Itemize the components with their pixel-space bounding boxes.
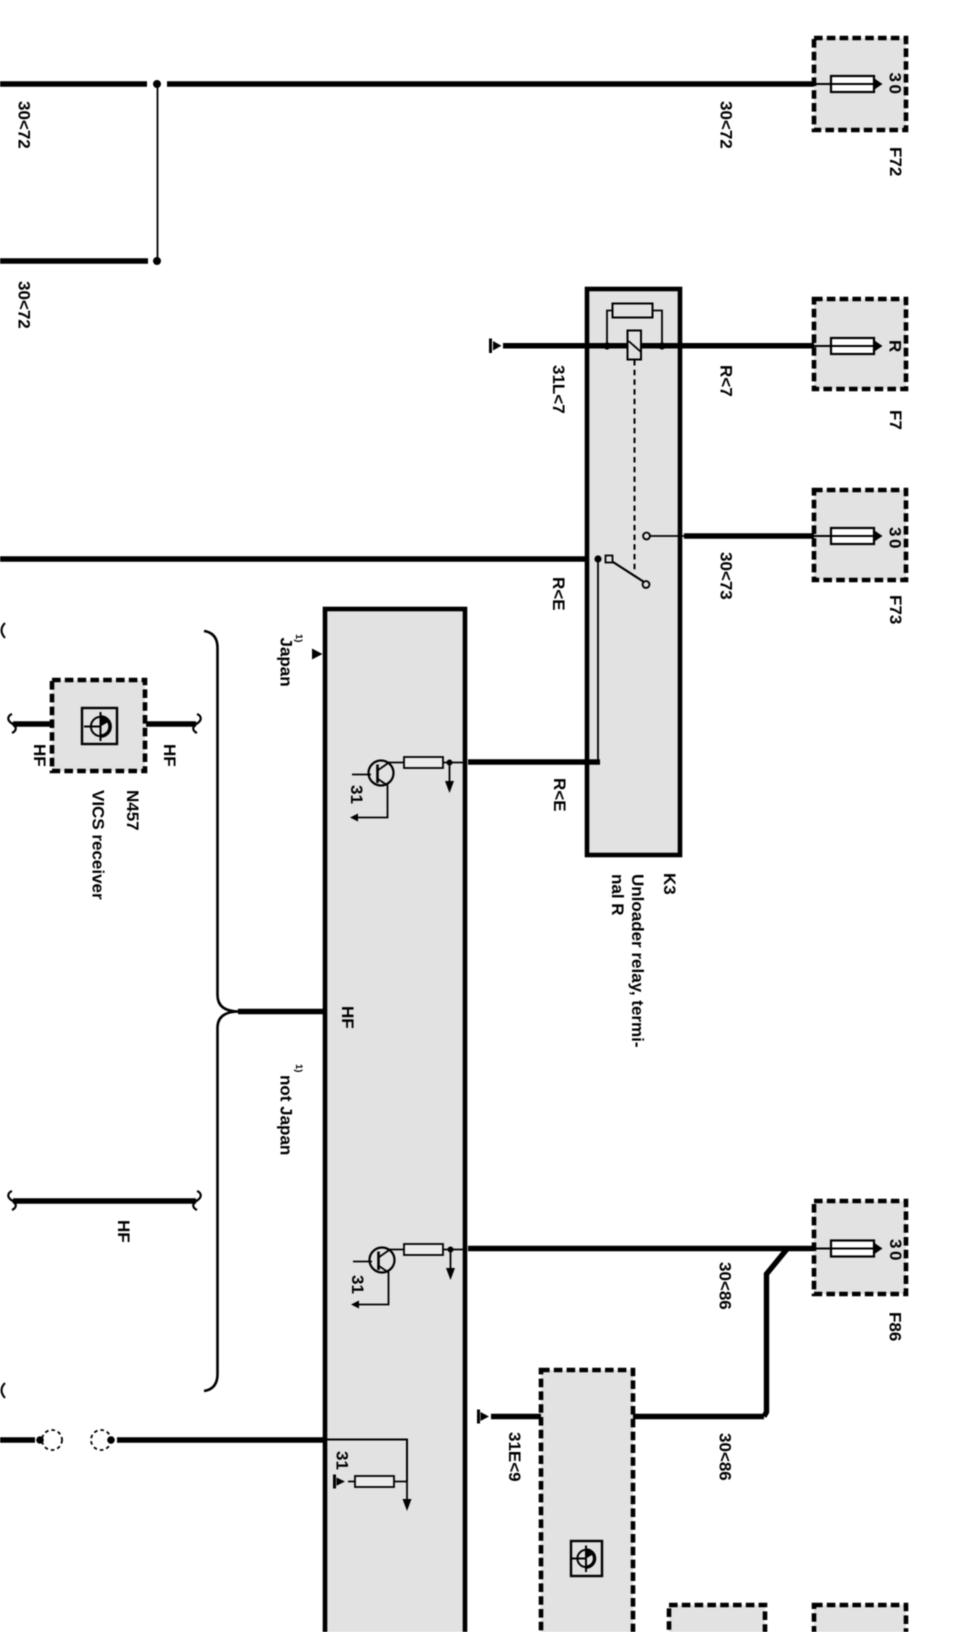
break squiggle stub right [193,1191,201,1210]
wire connector row to nav box [117,1437,327,1442]
label HF left [30,744,49,767]
svg-text:R<E: R<E [550,778,569,812]
label 31 internal [333,1451,352,1470]
arrow Japan variant input [312,649,323,660]
label 30<72 lower stub [15,281,34,329]
label F7 [886,410,905,430]
svg-text:F73: F73 [886,595,905,624]
pin label 30 on F72 [886,73,905,97]
fuse F7 body [814,338,883,354]
label F73 [886,595,905,624]
wire Q2 resistor to edge [443,1249,466,1251]
transistor Q1 base bar [376,765,379,784]
arrow Q2 down continuation [446,1250,455,1281]
label 31 Q1 [347,785,366,804]
wire link between junctions [157,84,159,261]
relay parallel resistor body [613,304,653,318]
antenna symbol beacon unit [571,1541,602,1576]
svg-text:30<86: 30<86 [716,1433,735,1481]
transistor Q2 emitter with ground arrow 31 [351,1266,389,1309]
svg-text:30<72: 30<72 [15,281,34,329]
label 30<72 upper stub [15,101,34,149]
svg-text:R<E: R<E [549,577,568,611]
wire 31E<9 to beacon box [491,1414,541,1419]
transistor Q1 emitter with ground arrow 31 [350,779,388,822]
wire riser to F86 wire [764,1249,787,1417]
svg-text:not Japan: not Japan [277,1075,296,1155]
wire 30<73 relay to F73 [684,533,814,538]
node junction second [153,257,161,265]
svg-text:HF: HF [30,744,49,767]
svg-text:R: R [886,340,905,352]
label F86 [886,1312,905,1341]
svg-text:Unloader relay, termi-: Unloader relay, termi- [628,874,647,1048]
wire R<E nav to relay [468,759,600,764]
fuse F72 lead [814,83,874,85]
label 30<72 near F72 [717,101,736,149]
node dot R<E entry [594,555,601,562]
arrow down continuation internal [403,1482,412,1512]
relay coil parallel resistor leads [607,311,662,345]
label HF stub [114,1220,133,1243]
wire 31L<7 / R<7 through relay to F7 [503,343,814,348]
svg-text:31: 31 [333,1451,352,1470]
resistor internal ground network [348,1476,407,1487]
fuse F72 body [831,76,874,92]
svg-text:F7: F7 [886,410,905,430]
svg-text:HF: HF [338,1006,357,1029]
relay contact lead to box edge [651,535,685,537]
component box bottom middle cut [669,1605,765,1632]
transistor Q2 base bar [377,1252,380,1271]
relay K3 box [587,289,680,855]
svg-text:30<72: 30<72 [717,101,736,149]
label HF at nav box [338,1006,357,1029]
break squiggle right [193,714,201,733]
transistor Q1 circle [369,761,394,786]
label 30<86 lower [716,1433,735,1481]
svg-text:F86: F86 [886,1312,905,1341]
navigation unit box [325,609,465,1632]
resistor Q1 output [404,757,443,768]
arrow Q1 down continuation [445,763,454,794]
svg-text:31L<7: 31L<7 [549,365,568,414]
label HF right [160,744,179,767]
wire HF stub not-Japan [13,1198,196,1203]
label nal R [608,874,627,916]
VICS beacon antenna unit box [541,1370,633,1632]
fuse box F7 [814,299,906,389]
pin label R on F7 [886,340,905,352]
wire HF right of N457 [146,721,196,726]
label R<E left [549,577,568,611]
node junction top-left [153,80,161,88]
transistor Q2 circle [370,1248,395,1273]
fuse F73 body [814,528,883,544]
svg-text:K3: K3 [660,873,679,895]
pin label 30 on F86 [886,1239,905,1263]
wire 30<72 lower stub [0,258,148,263]
wire internal R<E riser [597,559,599,761]
label K3 [660,873,679,895]
label 30<73 [717,552,736,600]
VICS receiver box N457 [52,680,145,771]
relay common contact square [606,556,613,563]
svg-text:R<7: R<7 [717,365,736,397]
svg-text:HF: HF [160,744,179,767]
node dot right coil tap [658,342,665,349]
label 31L<7 [549,365,568,414]
ground symbol wire 31L<7 [489,339,502,354]
transistor Q2 base lead [353,1261,372,1263]
page cut mark upper [2,623,6,638]
wire HF left of N457 [13,721,51,726]
fuse box F72 [814,38,906,130]
antenna symbol N457 [82,708,117,744]
wire Q1 resistor to edge [443,762,466,764]
node dot left coil tap [603,342,610,349]
wire connector row left segment [0,1437,35,1442]
svg-text:N457: N457 [123,790,142,831]
label F72 [886,147,905,176]
svg-text:30: 30 [886,527,905,551]
svg-text:30: 30 [886,73,905,97]
label Unloader relay termi- [628,874,647,1048]
svg-text:Japan: Japan [277,638,296,687]
wire 30<72 main run to F72 [167,81,814,86]
label Japan footnote mark [293,634,304,642]
wire 30<86 nav to F86 [468,1246,814,1251]
connector ring right [91,1430,111,1450]
svg-text:31: 31 [347,785,366,804]
brace variant group [204,631,239,1391]
resistor Q2 output [404,1244,443,1255]
wire HF brace to nav box [238,1009,326,1014]
wire 30<86 beacon to riser [633,1414,764,1419]
svg-text:31: 31 [348,1275,367,1294]
relay switch arm [613,562,644,582]
fuse box F86 [814,1201,906,1294]
connector ring left [42,1430,62,1450]
node Q2 output junction [448,1247,454,1253]
label R<7 [717,365,736,397]
label Japan [277,638,296,687]
svg-text:nal R: nal R [608,874,627,916]
svg-text:30: 30 [886,1239,905,1263]
pin label 30 on F73 [886,527,905,551]
node dot connector left [36,1436,44,1444]
svg-text:30<73: 30<73 [717,552,736,600]
node dot connector right [107,1436,115,1444]
node Q1 output junction [447,760,453,766]
svg-text:30<72: 30<72 [15,101,34,149]
svg-text:HF: HF [114,1220,133,1243]
break squiggle left [8,714,16,733]
relay actuating dashed link [634,360,636,573]
svg-text:F72: F72 [886,147,905,176]
svg-text:VICS receiver: VICS receiver [89,790,108,900]
component box bottom right cut [814,1605,906,1632]
label 30<86 upper [716,1262,735,1310]
relay coil element [628,331,642,360]
label 31E<9 [505,1432,524,1482]
svg-text:31E<9: 31E<9 [505,1432,524,1482]
relay switch arm end circle [643,581,650,588]
label 31 Q2 [348,1275,367,1294]
fuse F86 body [814,1241,883,1257]
label not Japan [277,1075,296,1155]
relay contact 30 terminal circle [643,533,650,540]
ground symbol 31 internal [333,1475,345,1489]
wire R<E to left edge [0,556,589,561]
internal wire connector input [327,1440,407,1482]
svg-text:30<86: 30<86 [716,1262,735,1310]
transistor Q2 collector [379,1250,405,1258]
page cut mark lower [2,1383,6,1398]
label N457 [123,790,142,831]
transistor Q1 base lead [352,774,371,776]
break squiggle stub left [8,1191,16,1210]
transistor Q1 collector [378,763,405,771]
wire 30<72 upper left segment [0,81,147,86]
label VICS receiver [89,790,108,900]
fuse box F73 [814,490,906,580]
label not Japan footnote mark [293,1064,304,1072]
fuse F72 arrow tip [873,78,883,91]
ground symbol wire 31E<9 [477,1410,489,1424]
label R<E lower [550,778,569,812]
svg-text:1): 1) [293,1064,304,1072]
